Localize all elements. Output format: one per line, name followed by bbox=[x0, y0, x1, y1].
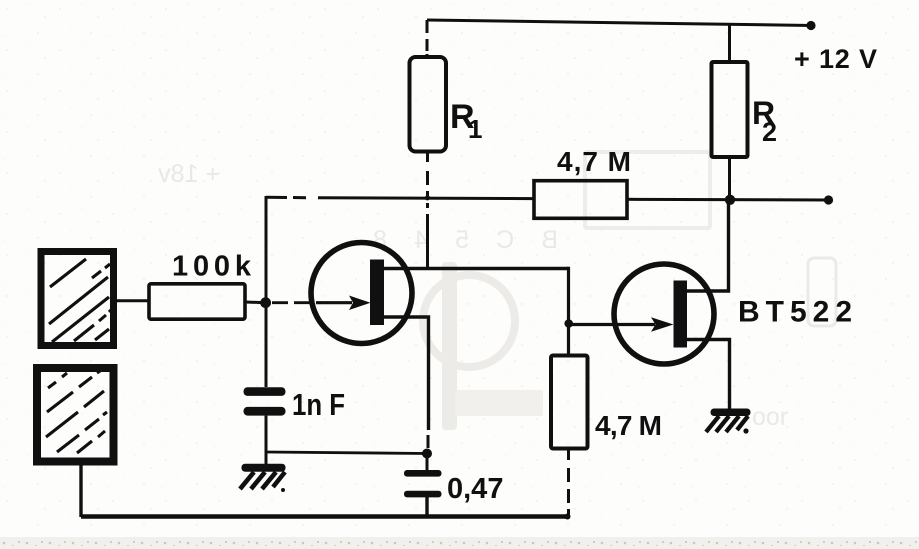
ground GND2 bbox=[706, 409, 751, 434]
wire R2 bottom to feedback node bbox=[728, 157, 731, 200]
transistor Q2 body bbox=[614, 264, 714, 364]
node +12V terminal bbox=[806, 21, 815, 30]
node output terminal bbox=[824, 195, 833, 204]
wire +12V top rail bbox=[427, 20, 812, 26]
capacitor C2 0,47 plates bbox=[426, 458, 429, 470]
wire Q2 drain to R2 branch bbox=[684, 202, 729, 291]
wire Q1 source dashes to C2 node bbox=[427, 435, 430, 448]
resistor 4,7M lower bbox=[551, 356, 588, 449]
touch plate 1 bbox=[41, 252, 114, 346]
wire 100k to gate node bbox=[245, 301, 266, 305]
wire Q2 gate line with arrow bbox=[569, 323, 656, 326]
wire plate2 down to bottom rail bbox=[79, 462, 82, 518]
wire Q1 source line bbox=[381, 317, 429, 430]
svg-text:+ 18v: + 18v bbox=[158, 160, 220, 188]
capacitor C1 1nF plates bbox=[244, 387, 286, 396]
wire Q1 gate (dashed) with arrow bbox=[272, 301, 312, 304]
svg-text:oor: oor bbox=[752, 403, 788, 431]
node Q2 gate junction bbox=[564, 319, 573, 328]
node bottom rail end bbox=[565, 514, 571, 520]
ground GND1 bbox=[240, 464, 286, 492]
node T1 gate junction bbox=[260, 297, 271, 308]
wire C2 bottom to bottom rail bbox=[425, 497, 428, 517]
node R2/output junction bbox=[725, 195, 735, 205]
svg-text:4,7 M: 4,7 M bbox=[557, 146, 631, 177]
transistor Q1 channel bar bbox=[370, 260, 384, 326]
wire Q2 source to ground bbox=[684, 340, 730, 410]
node R1 branch crossing bbox=[425, 195, 430, 200]
wire Q1 drain line to right bbox=[381, 267, 569, 270]
node C2 junction bbox=[422, 449, 432, 459]
resistor 4,7M feedback bbox=[534, 181, 627, 219]
wire R1 bottom dashed stub to feedback line bbox=[426, 152, 429, 198]
wire R1 branch down to Q1 drain line bbox=[426, 203, 429, 269]
wire bottom rail bbox=[81, 514, 567, 518]
resistor R2 bbox=[712, 62, 748, 157]
transistor Q2 channel bar bbox=[674, 281, 688, 348]
wire top rail to R2 bbox=[728, 24, 731, 62]
svg-text:BT522: BT522 bbox=[738, 296, 852, 329]
wire 4,7M lower dashed to bottom rail bbox=[567, 449, 570, 517]
capacitor C1 1nF top wire bbox=[265, 303, 268, 387]
wire Q1 drain corner down to Q2 gate node bbox=[567, 267, 570, 356]
svg-text:+ 12 V: + 12 V bbox=[794, 44, 877, 74]
resistor R1 bbox=[410, 57, 447, 152]
svg-text:1n F: 1n F bbox=[292, 387, 345, 422]
wire feedback line right segment bbox=[627, 198, 829, 202]
resistor 100k bbox=[149, 284, 245, 319]
wire feedback line down to gate node bbox=[265, 196, 268, 303]
wire plate1 to 100k bbox=[117, 299, 149, 302]
wire feedback line left segment (dash-dot) bbox=[266, 197, 534, 198]
wire C1 bottom branch to C2 node bbox=[266, 452, 427, 454]
touch plate 2 bbox=[37, 368, 114, 462]
wire top rail to R1 (dashed stub) bbox=[426, 20, 429, 57]
faint bleed-through box right bbox=[808, 258, 836, 326]
transistor Q1 body bbox=[311, 243, 412, 344]
svg-text:4,7 M: 4,7 M bbox=[595, 410, 662, 441]
svg-text:1: 1 bbox=[468, 114, 482, 144]
svg-text:0,47: 0,47 bbox=[447, 473, 503, 505]
wire C1 bottom to ground bbox=[265, 416, 268, 464]
faint bleed-through circle bbox=[423, 275, 515, 367]
svg-text:2: 2 bbox=[762, 117, 777, 147]
bottom scan band bbox=[0, 537, 919, 549]
